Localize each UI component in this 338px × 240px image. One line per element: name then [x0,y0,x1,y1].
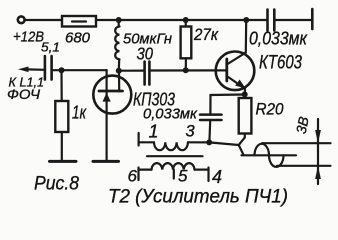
T2 primary winding [154,142,188,150]
svg-text:680: 680 [65,30,90,46]
waveform top level line [262,142,331,144]
КП303 source arrow [103,93,111,102]
T2 center tap pin5 [173,170,175,179]
wire T2 node to R20 [209,142,239,145]
input arrow К L1.1 ФОЧ [18,67,45,73]
T2 core [147,155,203,157]
svg-text:5,1: 5,1 [41,41,60,55]
wire cap to right terminal [274,19,312,21]
КТ603 collector lead [227,20,246,65]
КТ603 base bar [225,59,228,81]
junction node collector top [243,17,249,23]
transistor Q2 КТ603 circle [216,52,255,91]
right terminal bar [311,9,314,29]
svg-text:0,033мк: 0,033мк [143,107,198,123]
T2 primary left wire [139,141,154,143]
КТ603 emitter lead with arrow [227,76,246,94]
terminal +12V [18,16,25,23]
waveform bottom level line [277,165,331,167]
resistor 680 [62,16,96,27]
junction node 27k top [183,17,189,23]
wire terminal to R680 [25,19,62,21]
dimension line 3В [315,119,321,184]
cap mid bottom lead [208,121,211,142]
svg-text:Рис.8: Рис.8 [34,173,79,195]
27k bottom lead [185,58,187,70]
R20 bottom lead [239,134,245,146]
T2 secondary right tick pin4 [207,168,209,182]
svg-text:5: 5 [178,167,188,186]
capacitor 5,1 [45,56,52,80]
T2 secondary left tick pin6 [137,168,139,181]
T2 secondary right wire [195,169,209,171]
junction node drain [116,68,122,74]
T2 primary right wire [188,141,209,143]
junction node gate/1k [59,67,65,73]
waveform sine [255,144,284,167]
wire drain node to cap 30 [119,69,144,71]
capacitor 30 [145,62,150,85]
wire 1k top lead [60,70,62,101]
junction node emitter [242,91,248,97]
wire to waveform baseline [239,145,244,155]
svg-text:6: 6 [128,167,138,186]
T2 pin1 tick [138,133,140,146]
svg-text:1к: 1к [72,103,87,123]
КП303 drain lead [118,71,120,92]
resistor 27к [181,27,192,59]
resistor 1к [55,101,68,132]
svg-text:+12В: +12В [13,28,44,45]
junction node 27k bottom [183,67,189,73]
waveform baseline [242,154,297,156]
wire cap 30 to base [150,69,227,71]
svg-text:1: 1 [149,122,159,142]
wire cap 5,1 to gate [52,69,107,71]
inductor 50мкГн [115,20,119,71]
svg-text:3В: 3В [293,115,312,135]
ground bar under 1k [50,160,77,163]
junction node T2 pin3 [206,139,212,145]
svg-text:КТ603: КТ603 [259,52,302,73]
wire emitter to cap lead [211,93,245,96]
svg-text:0,033мк: 0,033мк [249,29,308,49]
T2 secondary left wire [139,169,152,171]
svg-text:27к: 27к [193,26,219,44]
transistor Q1 КП303 circle [93,76,131,114]
27k top lead [185,20,187,27]
wire top rail R680 to cap [96,19,268,21]
junction node drain-supply [116,17,122,23]
svg-text:3: 3 [186,123,196,141]
T2 secondary winding [152,163,195,170]
cap 0,033 mid top lead [209,95,211,114]
ground bar under source [93,160,119,163]
КП303 channel bar [99,90,123,93]
wire 1k bottom lead [61,132,63,161]
capacitor 0,033мк mid [200,115,222,120]
svg-text:R20: R20 [256,100,285,118]
capacitor 0,033мк top-right [268,10,275,31]
svg-text:Т2 (Усилитель ПЧ1): Т2 (Усилитель ПЧ1) [108,187,288,208]
svg-text:ФОЧ: ФОЧ [7,86,41,102]
svg-text:4: 4 [212,167,222,187]
КП303 gate/source vertical lead [105,70,107,161]
resistor R20 top lead [244,94,246,98]
resistor R20 [239,98,252,134]
